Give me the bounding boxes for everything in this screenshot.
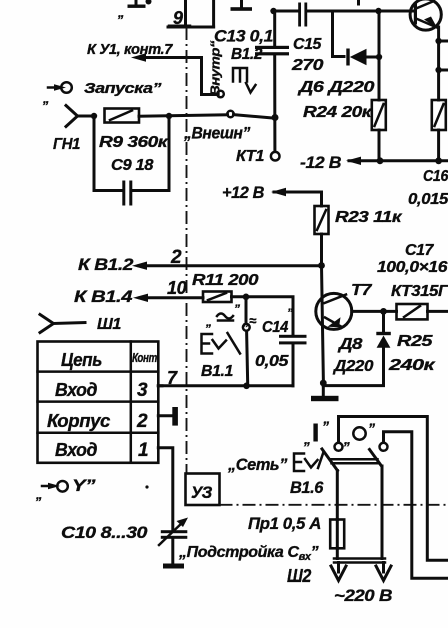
- svg-text:„≈: „≈: [242, 313, 257, 328]
- wire stub right B: [439, 69, 448, 72]
- svg-text:R24 20к: R24 20к: [303, 104, 373, 121]
- resistor R9: [99, 109, 169, 152]
- wire top rail left: [274, 10, 299, 13]
- svg-text:С16: С16: [423, 168, 448, 185]
- wire K U1 kont.7: [87, 41, 224, 97]
- svg-text:R23 11к: R23 11к: [335, 209, 403, 226]
- svg-text:100,0×16: 100,0×16: [377, 259, 448, 276]
- transistor T7: [316, 266, 448, 383]
- svg-text:”: ”: [287, 306, 293, 320]
- svg-text:„Подстройка Свх”: „Подстройка Свх”: [178, 544, 319, 563]
- node T7 emitter ground: [320, 380, 327, 387]
- svg-text:Ш1: Ш1: [97, 316, 122, 333]
- svg-text:С17: С17: [405, 242, 434, 259]
- node speck: [145, 485, 148, 488]
- svg-text:С13 0,1: С13 0,1: [214, 27, 273, 46]
- node B1.1 top: [243, 294, 250, 301]
- wire top rail right: [307, 10, 379, 13]
- wire node to C14: [246, 297, 293, 335]
- connector Sh2 top lines: [332, 459, 378, 463]
- capacitor C9: [94, 116, 169, 206]
- ground C10: [163, 564, 184, 569]
- svg-text:„: „: [42, 91, 49, 106]
- svg-text:„: „: [205, 315, 212, 329]
- node top rail: [270, 8, 276, 14]
- wire up from node 9 branch: [212, 0, 215, 27]
- svg-text:„Внешн”: „Внешн”: [183, 124, 251, 143]
- svg-text:R25: R25: [397, 333, 434, 350]
- capacitor C13: [214, 11, 289, 55]
- svg-text:+12 В: +12 В: [222, 183, 264, 202]
- diode D8: [323, 311, 391, 385]
- svg-text:С10 8...30: С10 8...30: [61, 523, 148, 542]
- svg-text:Ш2: Ш2: [287, 566, 311, 586]
- svg-text:Цепь: Цепь: [61, 350, 102, 370]
- label Vnutr: [208, 40, 223, 96]
- wire T7 collector right: [352, 310, 397, 313]
- box U3: [186, 474, 220, 506]
- node diode/base: [376, 54, 382, 60]
- svg-text:УЗ: УЗ: [191, 483, 212, 502]
- rail -12V: [300, 153, 448, 172]
- svg-text:В1.2: В1.2: [231, 46, 262, 63]
- capacitor C10 trimmer: [61, 518, 188, 564]
- fuse Pr1: [248, 514, 344, 548]
- wire right pole down: [381, 466, 384, 559]
- svg-text:Д8: Д8: [337, 336, 363, 353]
- wire right resistor to rail: [437, 130, 440, 161]
- capacitor C16 label: [408, 168, 448, 208]
- svg-text:КТ1: КТ1: [236, 148, 264, 165]
- wire stub right A: [439, 40, 448, 43]
- svg-text:В1.1: В1.1: [201, 363, 233, 380]
- wire K V1.2: [78, 247, 322, 274]
- wire left pole down: [336, 471, 339, 520]
- svg-text:Запуска”: Запуска”: [84, 80, 162, 97]
- chassis bar pin2: [172, 407, 178, 426]
- svg-text:”: ”: [322, 418, 329, 434]
- svg-text:К У1, конт.7: К У1, конт.7: [87, 41, 173, 58]
- svg-text:Вход: Вход: [55, 380, 97, 400]
- svg-text:3: 3: [137, 380, 148, 401]
- svg-text:Y”: Y”: [72, 476, 96, 495]
- svg-text:10: 10: [167, 278, 187, 298]
- node T7/D8: [380, 308, 387, 315]
- svg-text:240к: 240к: [388, 357, 436, 374]
- wire base vertical: [378, 11, 381, 100]
- wire pin1: [158, 448, 173, 530]
- node R23/base: [318, 262, 325, 269]
- connector Sh1: [40, 315, 122, 334]
- node B: [435, 67, 441, 73]
- connector Sh2 bottom lines: [287, 559, 385, 587]
- capacitor C15: [291, 3, 324, 75]
- svg-text:~220 В: ~220 В: [334, 586, 392, 605]
- node A: [435, 38, 441, 44]
- svg-text:„: „: [35, 487, 42, 502]
- svg-text:„: „: [303, 431, 311, 447]
- svg-text:Пр1 0,5 А: Пр1 0,5 А: [248, 514, 321, 533]
- svg-text:7: 7: [167, 368, 178, 388]
- svg-text:„: „: [117, 5, 124, 20]
- wire R23 down: [320, 234, 323, 265]
- capacitor C14: [242, 306, 307, 386]
- wire K V1.4: [74, 278, 203, 306]
- svg-text:С15: С15: [293, 36, 322, 53]
- switch B1.2: [227, 46, 272, 118]
- svg-text:Д220: Д220: [332, 358, 374, 375]
- node R9 right: [166, 113, 172, 119]
- svg-text:Т7: Т7: [351, 282, 373, 299]
- resistor R11: [192, 272, 259, 302]
- connector GN1: [53, 106, 94, 154]
- svg-text:Корпус: Корпус: [47, 411, 110, 431]
- switch B1.1: [201, 302, 250, 384]
- wire pin2: [158, 414, 172, 417]
- ground T7: [311, 383, 339, 401]
- wire R11 to node: [232, 295, 247, 298]
- svg-text:0,05: 0,05: [255, 353, 290, 370]
- plug pin arrows Sh2: [331, 563, 392, 606]
- capacitor C17 label: [377, 242, 448, 276]
- wire top stub C8: [231, 0, 253, 11]
- wire C13 to KT1: [273, 55, 276, 151]
- wire collector-emitter right: [437, 27, 440, 100]
- connector table Sh1: [38, 342, 159, 463]
- svg-text:R9 360к: R9 360к: [99, 134, 169, 151]
- svg-text:”: ”: [234, 302, 240, 316]
- svg-text:0,015: 0,015: [408, 191, 448, 208]
- node GN1: [91, 113, 97, 119]
- svg-text:”: ”: [368, 420, 375, 436]
- resistor R24: [303, 100, 386, 130]
- wire B1.1 bottom rail: [158, 384, 293, 387]
- svg-text:1: 1: [138, 440, 148, 461]
- transistor Q-top: [410, 0, 441, 30]
- wire fuse down: [336, 548, 339, 558]
- svg-text:Вход: Вход: [55, 440, 97, 460]
- wire node to B1.1 contact: [245, 297, 248, 324]
- svg-text:Д6 Д220: Д6 Д220: [297, 79, 375, 96]
- wire B1.6 right contact to right edge: [384, 432, 448, 579]
- svg-text:В1.6: В1.6: [290, 478, 324, 497]
- resistor R23: [315, 206, 403, 234]
- node 9: [169, 0, 190, 28]
- svg-text:270: 270: [291, 57, 324, 74]
- wire R9 to B1.2: [139, 115, 228, 116]
- wire C15 to diode: [333, 11, 345, 57]
- node B1.1 bottom: [243, 383, 250, 390]
- node B1.2 junction: [272, 114, 279, 121]
- svg-text:С14: С14: [262, 319, 288, 336]
- chassis dash-dot line vertical: [186, 27, 188, 473]
- resistor R25: [388, 304, 448, 374]
- chassis dash-dot line horizontal: [220, 504, 448, 506]
- connector Y: [35, 476, 96, 502]
- svg-text:КТ315Г: КТ315Г: [391, 283, 448, 300]
- resistor right unlabeled: [432, 100, 446, 130]
- wire pin3: [158, 384, 162, 387]
- wire from node 9: [168, 26, 214, 29]
- wire R24 to rail: [378, 130, 381, 161]
- svg-text:-12 В: -12 В: [300, 153, 341, 172]
- svg-text:„: „: [343, 431, 351, 447]
- svg-text:С9 18: С9 18: [111, 157, 154, 174]
- svg-text:ГН1: ГН1: [53, 136, 80, 153]
- svg-text:„Сеть”: „Сеть”: [227, 455, 288, 474]
- wire B1.6 left contact to right edge: [339, 417, 448, 561]
- svg-text:R11 200: R11 200: [192, 272, 259, 289]
- svg-text:К В1.2: К В1.2: [78, 255, 134, 274]
- connector Zapuska: [42, 80, 162, 106]
- switch B1.6: [227, 418, 387, 497]
- wire base to transistor: [379, 10, 415, 13]
- svg-text:Внутр“: Внутр“: [208, 40, 223, 96]
- wire top stub right: [357, 0, 360, 4]
- diode D6: [297, 49, 380, 97]
- rail +12V: [222, 183, 322, 206]
- terminal KT1: [236, 148, 280, 165]
- wire top-left stub: [117, 0, 152, 20]
- svg-text:К В1.4: К В1.4: [74, 287, 133, 306]
- svg-text:Конт: Конт: [132, 350, 158, 365]
- svg-text:2: 2: [136, 411, 148, 432]
